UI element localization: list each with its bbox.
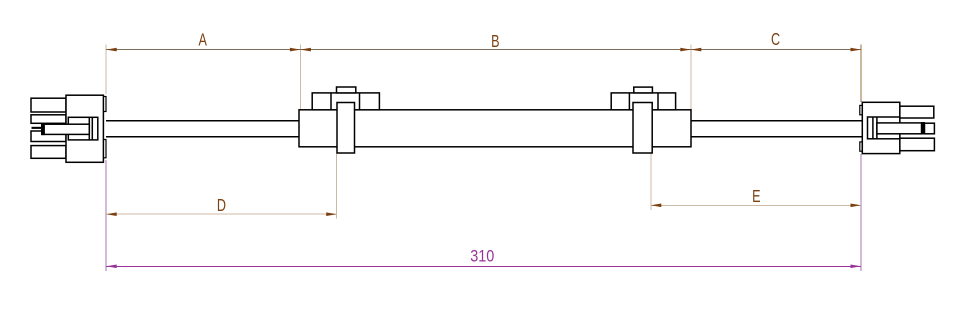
svg-text:D: D [217, 196, 226, 216]
svg-text:B: B [491, 32, 499, 52]
svg-text:310: 310 [470, 247, 494, 265]
svg-text:A: A [198, 31, 207, 51]
svg-text:C: C [771, 30, 780, 50]
svg-text:E: E [752, 187, 760, 207]
